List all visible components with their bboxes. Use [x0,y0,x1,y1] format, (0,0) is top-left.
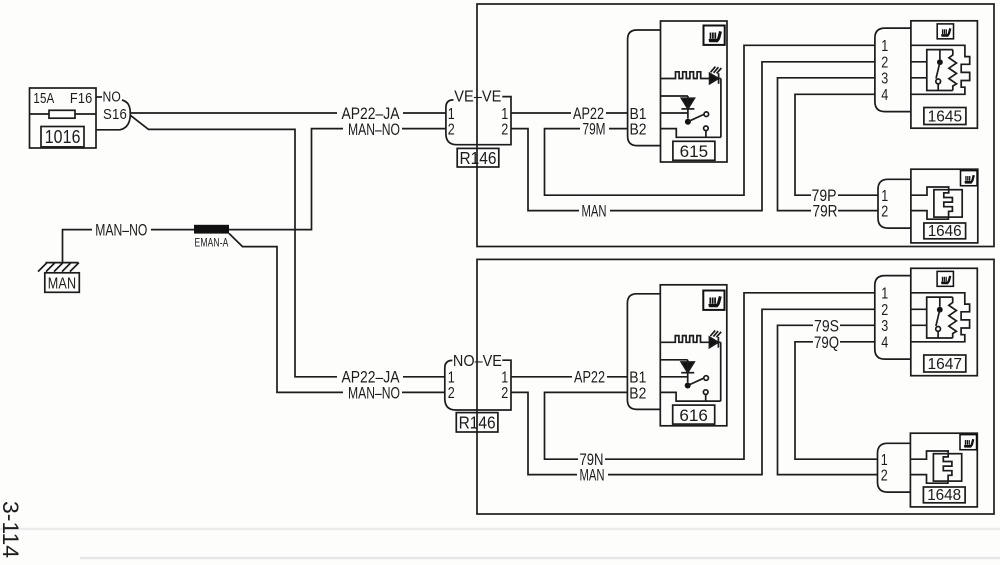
body 1648 [910,433,977,507]
node B2 internal shelf [661,129,721,138]
seat heating control module 616 [627,285,726,426]
tick to NO [96,96,102,98]
seat heating element 1646 [878,169,978,243]
wire MAN-NO from EMAN-A up to R146 upper pin2 [229,129,446,230]
label box 615 [673,141,715,160]
heating element loop pins 1-4 [911,293,970,342]
svg-text:EMAN-A: EMAN-A [195,236,229,250]
scan artifact lines [0,528,1000,530]
svg-text:615: 615 [680,143,709,161]
switch (thermostat) [685,383,691,389]
seat heating element 1648 [878,433,978,507]
wire from S16 diagonal down to lower R146 pin1 [130,115,445,377]
svg-text:R146: R146 [459,413,496,433]
node B2 internal shelf [660,392,720,401]
thermo switch housing [927,297,953,338]
label box R146 [457,148,499,167]
seat icon of 1647 [937,271,953,286]
svg-text:2: 2 [881,203,888,220]
switch (thermostat) [685,119,691,125]
connector of 1645 [875,28,911,112]
connector B of 616 [627,294,660,410]
seat icon of 1646 [961,171,978,186]
svg-text:4: 4 [881,87,888,104]
svg-text:1645: 1645 [928,108,963,125]
svg-text:1: 1 [448,106,455,123]
svg-text:1016: 1016 [45,126,81,147]
wire label MAN (lower) [577,467,608,485]
label box R146 [456,413,498,432]
heater element wave [910,451,952,481]
svg-text:1: 1 [501,370,508,387]
label box 1645 [924,108,966,125]
svg-text:MAN–NO: MAN–NO [348,385,400,403]
label box 616 [673,405,715,424]
wire label 79M [580,121,609,139]
body 1647 [911,268,978,375]
wire label 79R [811,203,838,221]
wire label MAN-NO (ground wire) [92,222,151,240]
ground wire MAN-NO from ground to splice EMAN-A [63,230,195,263]
seat icon of 1648 [960,435,977,450]
wire label MAN-NO (to R146 upper pin2) [343,121,402,139]
LED indicator [709,337,718,348]
label box 1648 [923,487,965,503]
stub pin2 to switch [911,308,927,310]
svg-text:AP22: AP22 [574,369,605,387]
svg-text:4: 4 [881,335,888,352]
resistor (zigzag) [949,297,957,338]
body 615 [661,21,728,162]
svg-text:1646: 1646 [928,223,962,240]
svg-text:MAN: MAN [48,275,77,292]
connector R146 lower [445,353,511,433]
wire 79Q from 1647 pin4 to 1648 pin1 [795,342,878,459]
ground symbol MAN [38,263,79,293]
svg-text:NO–VE: NO–VE [453,353,502,370]
svg-text:1: 1 [881,38,888,55]
stub pin3 to switch [911,77,927,79]
LED indicator [710,73,719,84]
wire MAN-NO from EMAN-A down to R146 lower pin2 [229,233,445,392]
svg-text:1: 1 [448,370,455,387]
wire AP22 from R146 upper pin1 to 615 B1 [511,112,628,114]
svg-text:F16: F16 [70,91,93,107]
wire label 79P [811,187,838,205]
connector of 1648 [878,443,911,492]
fuse F16 symbol [49,110,75,118]
body 1646 [911,169,978,243]
wire AP22 from R146 lower pin1 to 616 B1 [511,376,627,378]
svg-text:3: 3 [881,71,888,88]
svg-text:2: 2 [501,121,508,138]
label box 1016 [41,127,84,147]
connector R146 upper [446,88,511,168]
svg-text:2: 2 [881,467,888,484]
label box 1646 [924,223,966,239]
svg-text:B1: B1 [630,106,647,123]
svg-text:1: 1 [501,106,508,123]
label box 1647 [924,355,966,372]
svg-text:2: 2 [448,121,455,138]
body 616 [660,285,727,426]
wire 79R from 1645 pin3 to 1646 pin2 [778,78,879,211]
heater return path [910,475,948,484]
svg-text:1647: 1647 [928,356,963,373]
seat icon of 1645 [937,24,953,39]
thermo switch housing [927,50,953,91]
splice S16 [96,100,130,130]
svg-text:MAN: MAN [580,467,605,485]
stub pin2 to switch [911,61,927,63]
diode D1 [660,359,687,361]
svg-text:3-114: 3-114 [0,501,23,558]
node B1 internal [660,376,687,378]
heater element wave [911,187,953,217]
svg-text:B1: B1 [629,370,646,387]
svg-text:S16: S16 [103,106,127,123]
heater mat housing [933,454,961,481]
wire label AP22-JA (lower) [337,369,403,387]
wire LED to B2 shelf [720,342,722,401]
wire AP22-JA from S16 to R146 upper pin1 [130,112,446,114]
seat icon of 616 [703,291,724,310]
wire label AP22 (lower) [572,369,607,387]
seat thermo relay 1647 [875,268,978,375]
svg-text:79M: 79M [583,121,606,139]
wire 79M from 615 B2 to 1645 pin1 [545,45,875,195]
svg-text:2: 2 [448,385,455,402]
wire 79P from 1645 pin4 to 1646 pin1 [795,94,878,195]
connector of 1646 [878,179,911,228]
heating element (comb) [660,336,709,343]
svg-text:VE–VE: VE–VE [454,88,501,105]
splice EMAN-A [194,225,229,234]
svg-text:79S: 79S [814,317,839,335]
body 1645 [911,21,978,128]
svg-text:B2: B2 [629,385,646,402]
heater return path [911,211,949,220]
svg-text:1: 1 [881,286,888,303]
wire label AP22-JA (upper) [337,105,403,123]
lower harness box frame [477,259,994,514]
fuse box 1016 [30,88,97,148]
wire label MAN-NO (to R146 lower pin2) [343,385,402,403]
svg-text:616: 616 [679,407,708,425]
resistor (zigzag) [949,50,957,91]
heating element loop pins 1-4 [911,45,970,94]
svg-text:2: 2 [881,55,888,72]
wire MAN from R146 upper pin2 to 1645 pin2 [511,62,875,211]
svg-text:MAN–NO: MAN–NO [348,121,400,139]
wire label 79N [578,451,605,469]
svg-text:NO: NO [103,88,122,105]
svg-text:3: 3 [881,318,888,335]
seat heating control module 615 [628,21,727,162]
svg-text:2: 2 [501,385,508,402]
wire MAN from R146 lower pin2 to 1647 pin2 [511,309,875,474]
svg-text:MAN–NO: MAN–NO [95,222,147,240]
connector B of 615 [628,30,661,146]
svg-text:79Q: 79Q [814,334,839,352]
wire label MAN (upper) [579,203,610,221]
switch contact [939,297,941,307]
node B1 internal [661,112,688,114]
heater mat housing [934,190,962,217]
wire label AP22 (upper) [571,105,606,123]
svg-text:R146: R146 [460,148,497,168]
wire LED to B2 shelf [720,79,722,138]
svg-text:B2: B2 [630,122,647,139]
wire label 79S [813,317,840,335]
upper harness box frame [477,4,994,247]
heating element (comb) [661,72,710,79]
wire label 79Q [813,334,840,352]
wire 79S from 1647 pin3 to 1648 pin2 [778,325,878,474]
connector of 1647 [875,276,911,360]
seat thermo relay 1645 [875,21,978,128]
svg-text:1648: 1648 [927,487,961,504]
switch contact [939,50,941,60]
wire 79N from 616 B2 to 1647 pin1 [545,293,875,459]
diode D1 [661,95,688,97]
svg-text:79R: 79R [813,203,838,221]
stub pin3 to switch [911,324,927,326]
svg-text:15A: 15A [33,91,54,107]
svg-text:MAN: MAN [582,203,607,221]
svg-text:2: 2 [881,302,888,319]
seat icon of 615 [704,26,725,45]
